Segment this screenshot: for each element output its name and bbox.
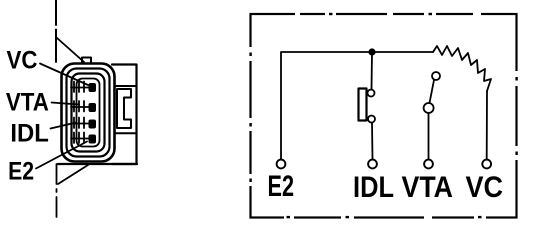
idle switch upper contact [368, 90, 375, 97]
wire: resistor to VC terminal [486, 91, 488, 160]
backplate bottom edge extension [58, 163, 137, 165]
svg-text:E2: E2 [268, 170, 295, 203]
connector top tab [82, 58, 91, 64]
pin VTA [89, 103, 97, 112]
pin VC [89, 83, 97, 92]
wiper pivot circle [424, 103, 434, 113]
svg-text:IDL: IDL [10, 120, 49, 148]
wire: junction to idle switch [371, 52, 374, 90]
svg-text:E2: E2 [8, 158, 34, 186]
terminal VC [482, 160, 491, 169]
leader E2 [36, 142, 87, 169]
idle switch lower contact [368, 116, 375, 123]
terminal IDL [368, 160, 377, 169]
sensor body centerline (top vertical) [55, 0, 57, 62]
wiper arm [430, 80, 435, 103]
wiper contact circle [432, 72, 440, 80]
pin row IDL [71, 118, 89, 129]
pin row VC [71, 82, 89, 93]
body diagonal (bottom) [58, 165, 88, 184]
resistor (potentiometer track) [433, 46, 491, 91]
sensor centerline (bottom, dash-dot) [56, 164, 58, 222]
leader VC [40, 64, 88, 86]
leader IDL [51, 123, 77, 129]
body diagonal (top) [57, 38, 84, 62]
pin IDL [89, 120, 97, 129]
svg-text:IDL: IDL [353, 171, 394, 204]
connector cavity outline [77, 79, 100, 147]
schematic boundary (dash-dot box) [248, 12, 520, 222]
wire: wiper to VTA terminal [428, 113, 430, 160]
pin row E2 [71, 133, 89, 144]
connector backplate [112, 65, 137, 165]
leader VTA [52, 103, 80, 105]
svg-text:VC: VC [466, 171, 504, 204]
connector inner shell [72, 74, 105, 152]
wire: top bus E2 to resistor [281, 52, 433, 160]
terminal E2 [277, 160, 286, 169]
pin E2 [89, 135, 97, 144]
junction dot [368, 48, 375, 55]
svg-text:VTA: VTA [6, 89, 49, 117]
idle switch body [359, 89, 367, 121]
connector outer shell [62, 64, 115, 162]
pin row VTA [71, 101, 89, 112]
svg-text:VTA: VTA [402, 171, 454, 204]
terminal VTA [424, 160, 433, 169]
wire: switch to IDL terminal [371, 123, 374, 160]
connector middle shell [67, 69, 110, 157]
latch housing box [115, 86, 137, 133]
latch clip [117, 89, 131, 128]
svg-text:VC: VC [7, 47, 38, 75]
